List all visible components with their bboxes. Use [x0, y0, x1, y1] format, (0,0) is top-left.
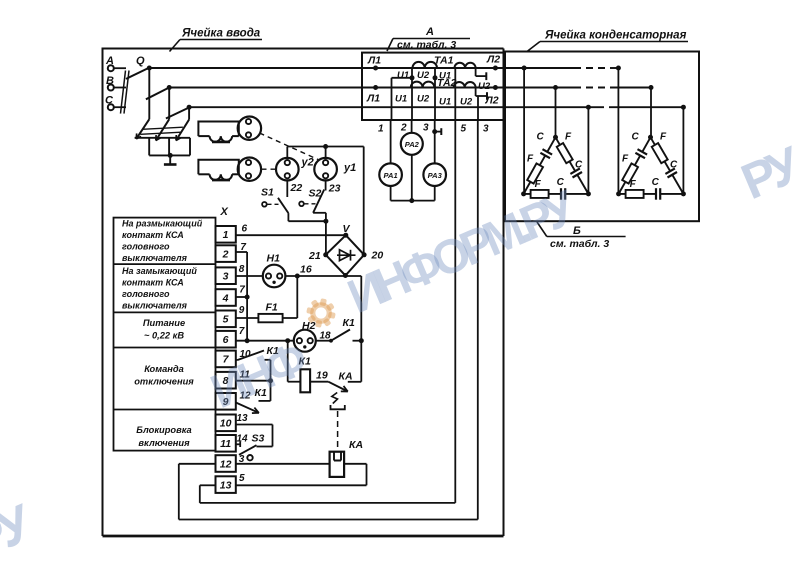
svg-text:На размыкающий: На размыкающий: [122, 219, 203, 229]
wire: X12 to terminal 3 loop: [179, 120, 478, 520]
capacitor delta group 2: [616, 131, 686, 199]
svg-text:13: 13: [220, 479, 232, 491]
svg-text:отключения: отключения: [134, 377, 194, 387]
svg-text:2: 2: [222, 248, 229, 260]
svg-text:F: F: [660, 131, 667, 142]
feeder drops to capacitor cells: [522, 66, 591, 194]
svg-text:12: 12: [220, 458, 232, 470]
frame: ячейка ввода enclosure: [103, 49, 504, 537]
frame: box А (см. табл. 3): [362, 53, 504, 120]
bus junction dots: [373, 66, 498, 91]
wire 7 bus (0.22kV): [236, 242, 250, 343]
wire 3: X12 to KA coil: [236, 463, 330, 465]
svg-text:Команда: Команда: [144, 364, 184, 374]
voltage indicator unit T1: [198, 122, 238, 142]
svg-text:5: 5: [223, 314, 229, 326]
node B (phase input): [106, 75, 126, 91]
wire 7 to lamp H2: [236, 340, 294, 342]
svg-text:Q: Q: [136, 55, 145, 67]
svg-text:РА3: РА3: [428, 171, 443, 180]
svg-text:F: F: [565, 131, 572, 142]
indicator socket E1: [238, 117, 261, 140]
svg-text:Л2: Л2: [486, 54, 500, 66]
labels U1 U2 row2: [395, 94, 473, 108]
svg-text:14: 14: [237, 433, 249, 444]
switch S2: [299, 188, 326, 222]
svg-text:3: 3: [483, 124, 489, 135]
label: Ячейка конденсаторная: [527, 30, 688, 52]
svg-text:Питание: Питание: [143, 318, 185, 328]
wire 11: [236, 370, 273, 384]
svg-text:F: F: [622, 153, 629, 164]
svg-text:выключателя: выключателя: [122, 253, 188, 263]
svg-text:Ячейка ввода: Ячейка ввода: [181, 28, 261, 40]
switch S3: [236, 432, 265, 465]
svg-text:U1: U1: [439, 71, 451, 82]
svg-text:S1: S1: [261, 187, 274, 199]
node A (phase input): [105, 55, 126, 71]
label: Ячейка ввода: [170, 28, 263, 52]
svg-text:Ячейка конденсаторная: Ячейка конденсаторная: [544, 30, 687, 42]
svg-text:7: 7: [239, 326, 245, 337]
relay coil KA: [330, 439, 363, 477]
svg-text:22: 22: [290, 182, 303, 194]
wire 5: KA to X13: [236, 464, 367, 486]
ammeter PA2: [401, 120, 423, 201]
svg-text:U2: U2: [460, 97, 473, 108]
lamp У2: [276, 157, 314, 181]
svg-text:Л1: Л1: [367, 55, 381, 67]
labels Л1 Л2: [366, 54, 500, 107]
svg-text:U1: U1: [439, 97, 451, 108]
svg-text:К1: К1: [343, 317, 355, 329]
svg-text:ИНФ: ИНФ: [204, 332, 315, 419]
svg-text:5: 5: [461, 124, 467, 135]
svg-text:КА: КА: [349, 439, 363, 451]
label: Б / см. табл. 3: [537, 222, 626, 250]
wire 6: X1 to bridge: [236, 224, 346, 236]
svg-text:13: 13: [237, 413, 249, 424]
grounding bracket: [135, 138, 190, 158]
frame: ячейка конденсаторная enclosure: [505, 52, 699, 222]
svg-text:у2: у2: [301, 157, 314, 169]
svg-text:8: 8: [239, 264, 245, 275]
wire: У2 bottom: [286, 181, 288, 198]
svg-text:3: 3: [223, 271, 229, 283]
wire: rail to node 20: [287, 144, 363, 255]
moving contacts with arrows: [136, 119, 189, 140]
svg-text:С: С: [537, 131, 545, 142]
rectifier bridge V: [323, 223, 366, 278]
ammeter PA1: [379, 120, 402, 201]
svg-text:9: 9: [239, 305, 245, 316]
voltage indicator unit T2: [198, 160, 238, 180]
svg-text:Н1: Н1: [267, 253, 281, 265]
capacitor delta group 1: [521, 131, 591, 199]
wire: X13 to terminal 5 loop: [200, 120, 455, 503]
svg-text:U2: U2: [417, 94, 430, 105]
contact K1 (X7-X8): [236, 345, 279, 381]
svg-text:4: 4: [222, 292, 229, 304]
svg-text:А: А: [425, 26, 434, 38]
ammeter common wire: [391, 198, 435, 203]
svg-text:U2: U2: [478, 81, 491, 92]
svg-text:Х: Х: [220, 206, 229, 218]
withdrawable truck rails: [140, 127, 183, 134]
label: А / см. табл. 3: [387, 26, 470, 51]
svg-text:6: 6: [223, 334, 229, 346]
svg-text:16: 16: [300, 264, 312, 276]
wire 16: H1 to bridge: [285, 264, 345, 279]
svg-text:РУ: РУ: [0, 494, 41, 565]
annotation box: [114, 218, 216, 451]
svg-text:КА: КА: [339, 371, 353, 383]
svg-text:1: 1: [378, 124, 384, 135]
svg-text:С: С: [632, 131, 640, 142]
svg-text:6: 6: [242, 224, 248, 235]
relay coil K1: [288, 341, 329, 393]
svg-text:F1: F1: [266, 302, 278, 314]
contact K1 (seal-in): [316, 317, 364, 343]
mechanical link (dashed) unit2 to У2: [262, 168, 276, 170]
svg-text:2: 2: [400, 123, 407, 134]
disconnector Q: [121, 55, 192, 120]
wire 8: X3 to lamp H1: [236, 264, 263, 276]
wire 9 riser to node 16: [239, 276, 297, 318]
svg-text:РА2: РА2: [405, 140, 420, 149]
svg-text:включения: включения: [138, 438, 190, 448]
node C (phase input): [105, 95, 126, 111]
svg-text:у1: у1: [343, 162, 356, 174]
current transformer TA2: [411, 77, 476, 89]
svg-text:На замыкающий: На замыкающий: [122, 266, 197, 276]
indicator socket E2: [238, 158, 261, 181]
wire: node 21 rail: [288, 219, 328, 255]
lamp H2: [285, 320, 316, 352]
svg-text:S3: S3: [252, 432, 265, 444]
svg-text:С: С: [575, 159, 583, 170]
terminal numbers: [378, 123, 489, 135]
contact K1 (X9): [236, 381, 271, 413]
ground: [164, 155, 177, 164]
contact KA (overcurrent trip): [316, 370, 361, 452]
secondary ground tick TA2: [476, 88, 487, 121]
wire: bridge minus drop: [345, 276, 361, 382]
wire: phase B bus: [169, 87, 651, 89]
svg-text:10: 10: [220, 418, 232, 430]
wire: phase A bus: [148, 67, 618, 69]
svg-text:Л1: Л1: [366, 93, 380, 105]
svg-text:7: 7: [239, 285, 245, 296]
svg-text:3: 3: [423, 123, 429, 134]
svg-text:U1: U1: [397, 70, 409, 81]
wire: У1 bottom: [325, 181, 327, 191]
svg-text:23: 23: [328, 183, 341, 195]
svg-text:F: F: [535, 179, 542, 190]
svg-text:контакт КСА: контакт КСА: [122, 230, 184, 240]
ammeter PA3: [423, 120, 446, 201]
svg-text:19: 19: [316, 370, 328, 382]
lamp У1: [314, 158, 356, 181]
secondary tap wires: [392, 68, 456, 120]
svg-text:С: С: [652, 177, 660, 188]
svg-text:5: 5: [239, 473, 245, 484]
watermark (decorative): [0, 135, 800, 570]
svg-text:11: 11: [220, 438, 231, 450]
svg-text:РА1: РА1: [384, 171, 398, 180]
svg-text:выключателя: выключателя: [122, 301, 188, 311]
secondary ground tick TA1: [476, 68, 487, 80]
current transformer TA1: [413, 55, 476, 69]
svg-text:С: С: [670, 159, 678, 170]
svg-text:U1: U1: [395, 94, 407, 105]
svg-text:F: F: [630, 179, 637, 190]
svg-text:F: F: [527, 153, 534, 164]
svg-text:Блокировка: Блокировка: [136, 425, 191, 435]
labels U1 U2 row1: [397, 70, 491, 92]
svg-text:головного: головного: [122, 242, 170, 252]
svg-text:1: 1: [223, 229, 229, 241]
svg-text:U2: U2: [417, 70, 430, 81]
svg-text:РУ: РУ: [733, 135, 800, 210]
svg-text:~ 0,22 кВ: ~ 0,22 кВ: [144, 331, 184, 341]
wire: phase C bus: [189, 106, 683, 108]
wire 13: [236, 413, 273, 447]
lamp H1: [263, 253, 286, 288]
svg-text:головного: головного: [122, 289, 170, 299]
mechanical link (dashed) unit1 to У1: [260, 133, 319, 160]
svg-text:контакт КСА: контакт КСА: [122, 278, 184, 288]
switch S1: [261, 187, 288, 222]
svg-text:21: 21: [308, 250, 321, 262]
fuse F1: [236, 302, 297, 323]
